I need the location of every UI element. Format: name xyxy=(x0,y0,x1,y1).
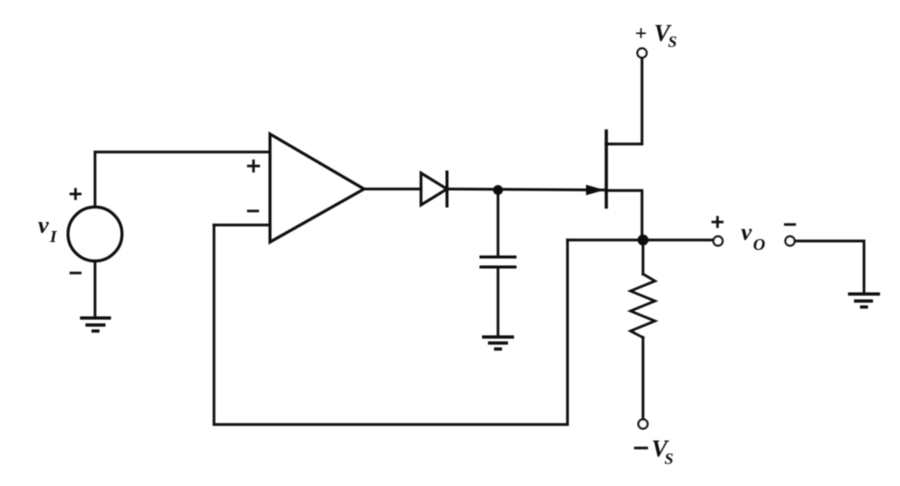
svg-text:O: O xyxy=(753,235,765,254)
svg-text:v: v xyxy=(38,213,49,239)
svg-text:S: S xyxy=(665,451,674,468)
svg-text:+: + xyxy=(635,21,647,45)
svg-text:I: I xyxy=(49,227,58,246)
svg-text:S: S xyxy=(668,34,677,51)
svg-text:v: v xyxy=(741,220,752,246)
